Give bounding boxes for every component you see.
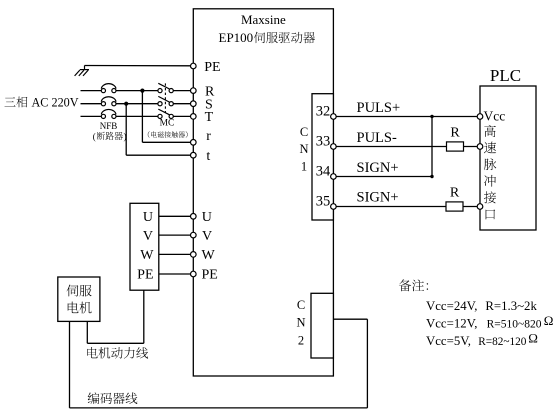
svg-text:Maxsine: Maxsine (241, 12, 286, 27)
wire phase T MC to terminal (173, 115, 193, 117)
wire phase R NFB to MC (116, 90, 158, 92)
wire to terminal t (126, 154, 193, 156)
label 备注 (notes) (399, 279, 428, 291)
svg-text:Ω: Ω (528, 330, 538, 345)
wire PE motor (159, 273, 194, 275)
wire ground to PE (85, 65, 194, 67)
wire to terminal r (142, 141, 193, 143)
svg-text:T: T (205, 110, 214, 125)
svg-text:SIGN+: SIGN+ (357, 190, 399, 206)
svg-text:U: U (202, 210, 212, 225)
svg-text:AC 220V: AC 220V (32, 96, 79, 110)
wire phase S input (81, 103, 102, 105)
svg-text:R: R (450, 186, 460, 201)
svg-text:1: 1 (301, 159, 307, 173)
wire PULS+ pin32 to PLC Vcc (333, 116, 480, 118)
svg-text:32: 32 (316, 104, 331, 120)
svg-text:PE: PE (204, 60, 220, 75)
svg-text:N: N (299, 142, 308, 156)
wire W (159, 253, 194, 255)
svg-text:W: W (140, 248, 154, 263)
svg-text:PE: PE (202, 268, 218, 283)
PLC terminal pulse input 1 (477, 144, 483, 150)
resistor R2 (446, 202, 463, 211)
terminal W (191, 252, 197, 258)
contactor MC pole T (158, 109, 173, 118)
svg-text:W: W (202, 248, 216, 263)
terminal T (191, 114, 197, 120)
svg-text:SIGN+: SIGN+ (357, 160, 399, 176)
breaker NFB pole S (101, 97, 116, 106)
connector CN1 box (312, 94, 333, 220)
terminal r (191, 140, 197, 146)
resistor R1 (447, 142, 464, 151)
mechanical link (dashed) of MC poles (164, 83, 166, 112)
connector CN2 box (311, 293, 333, 358)
svg-text:34: 34 (316, 164, 331, 180)
wire encoder cable up (366, 319, 368, 408)
svg-text:R=1.3~2k: R=1.3~2k (485, 299, 537, 313)
wire R tap down (141, 91, 143, 143)
junction on phase S (124, 102, 128, 106)
wire U (159, 215, 194, 217)
pin 35 of CN1 (331, 204, 337, 210)
breaker NFB pole R (101, 84, 116, 93)
svg-text:33: 33 (316, 134, 331, 150)
junction on phase R (140, 89, 144, 93)
svg-text:Vcc=24V,: Vcc=24V, (426, 299, 477, 313)
svg-text:Vcc: Vcc (484, 109, 506, 124)
junction on pin32 wire (430, 115, 433, 118)
wire SIGN+ pin35 via R2 (333, 206, 480, 208)
svg-text:r: r (206, 129, 211, 144)
label 伺服驱动器 (servo drive) (254, 32, 315, 43)
svg-text:R=82~120: R=82~120 (478, 336, 527, 348)
contactor MC pole R (158, 83, 173, 92)
terminal t (191, 152, 197, 158)
terminal PE (motor) (191, 271, 197, 277)
wire encoder cable to CN2 (333, 318, 367, 320)
svg-text:C: C (300, 125, 308, 139)
svg-text:Vcc=12V,: Vcc=12V, (426, 317, 477, 331)
wire PULS- pin33 via R1 (333, 146, 480, 148)
svg-text:U: U (143, 210, 153, 225)
wire encoder cable across (70, 407, 368, 409)
wire motor power cable up (86, 321, 88, 343)
wire phase S NFB to MC (116, 103, 158, 105)
contactor MC pole S (158, 96, 173, 105)
svg-text:R: R (450, 126, 460, 141)
wire motor power cable down (143, 290, 145, 343)
wire V (159, 234, 194, 236)
svg-text:(: ( (93, 131, 96, 141)
svg-text:PULS-: PULS- (357, 130, 397, 146)
label 伺服电机 (servo motor) (67, 285, 92, 297)
svg-text:Ω: Ω (544, 313, 554, 328)
svg-text:PLC: PLC (490, 66, 521, 85)
svg-text:Vcc=5V,: Vcc=5V, (426, 334, 471, 348)
motor cable connector box (130, 203, 159, 290)
wire SIGN+ pin34 to junction (333, 176, 432, 178)
svg-text:NFB: NFB (100, 121, 118, 131)
pin 34 of CN1 (331, 174, 337, 180)
label 三相 AC 220V (three-phase AC) (5, 97, 28, 108)
svg-text:N: N (296, 315, 305, 329)
terminal S (191, 101, 197, 107)
PLC terminal pulse input 2 (477, 204, 483, 210)
svg-text:V: V (202, 229, 212, 244)
wire junction vertical (Vcc common) (431, 117, 433, 177)
svg-text:MC: MC (160, 118, 175, 128)
svg-text:t: t (206, 149, 210, 164)
junction at pin34 wire end (430, 175, 433, 178)
PLC box (480, 86, 536, 230)
svg-text:R=510~820: R=510~820 (487, 319, 542, 331)
label （电磁接触器） contactor (148, 131, 188, 138)
wire S tap down (125, 104, 127, 156)
wire phase T NFB to MC (116, 115, 158, 117)
label 编码器线 (encoder cable) (88, 392, 138, 404)
servo drive unit U1 (Maxsine EP100) box (193, 9, 333, 376)
svg-text:EP100: EP100 (219, 30, 254, 45)
wire phase R MC to terminal (173, 90, 193, 92)
PLC terminal Vcc (477, 114, 483, 120)
svg-text:2: 2 (298, 334, 304, 348)
svg-text:35: 35 (316, 194, 331, 210)
label 高速脉冲接口 (high-speed pulse interface), vertical (484, 125, 496, 137)
ground (75, 66, 89, 76)
terminal V (191, 232, 197, 238)
svg-text:V: V (143, 229, 153, 244)
wire phase S MC to terminal (173, 103, 193, 105)
wire motor power cable across (87, 342, 144, 344)
terminal PE (191, 63, 197, 69)
pin 33 of CN1 (331, 144, 337, 150)
svg-text:PE: PE (137, 268, 153, 283)
terminal U (191, 214, 197, 220)
pin 32 of CN1 (331, 114, 337, 120)
terminal R (191, 88, 197, 94)
wire encoder cable down (69, 321, 71, 408)
svg-text:C: C (297, 298, 305, 312)
wire phase T input (81, 115, 102, 117)
svg-text:PULS+: PULS+ (357, 100, 401, 116)
breaker NFB pole T (101, 109, 116, 118)
wire phase R input (81, 90, 102, 92)
servo motor M1 box (58, 277, 100, 321)
label 电机动力线 (motor power cable) (87, 347, 148, 359)
